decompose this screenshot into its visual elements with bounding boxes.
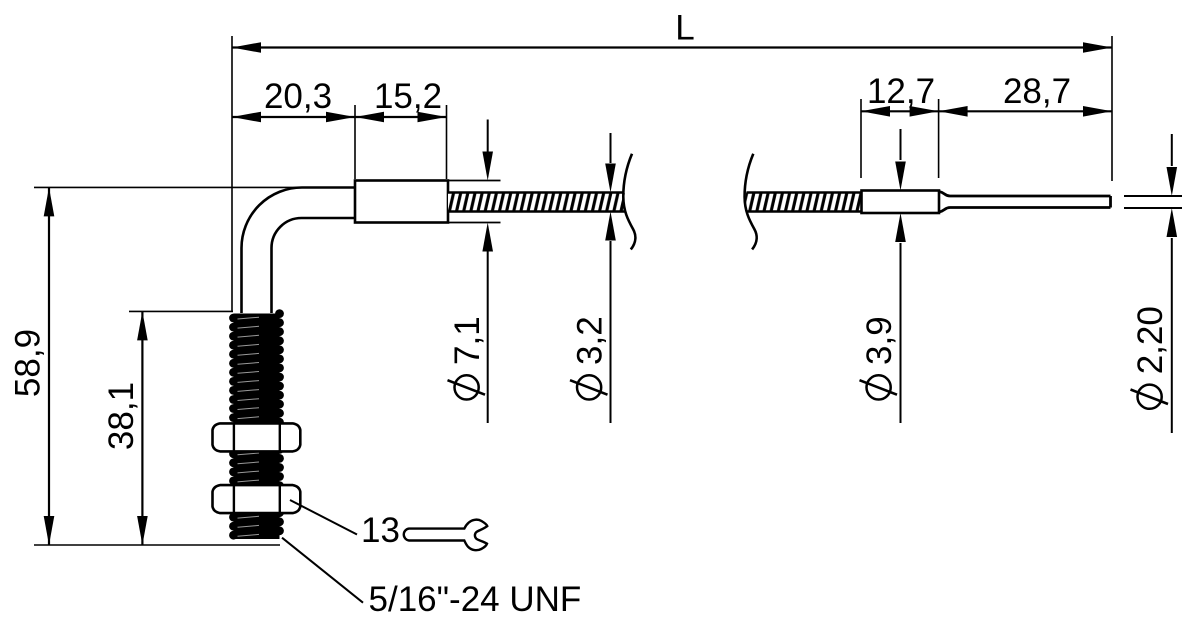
svg-text:58,9: 58,9 xyxy=(9,329,48,397)
dimension 12,7 xyxy=(861,99,939,178)
svg-text:15,2: 15,2 xyxy=(374,77,442,116)
svg-text:28,7: 28,7 xyxy=(1003,72,1071,111)
callout dia 3,9 xyxy=(900,129,902,423)
bent probe tube xyxy=(242,188,357,314)
thread helix lines xyxy=(238,317,260,536)
dimension 15,2 xyxy=(355,105,447,179)
svg-text:7,1: 7,1 xyxy=(448,316,487,365)
tip ticks 2.20 xyxy=(1124,196,1182,208)
svg-text:12,7: 12,7 xyxy=(867,72,935,111)
svg-text:13: 13 xyxy=(361,511,400,550)
dimension L xyxy=(232,36,1112,311)
transition sleeve 7.1 xyxy=(355,181,448,223)
sleeve ticks xyxy=(448,181,501,223)
svg-text:38,1: 38,1 xyxy=(102,382,141,450)
svg-text:3,2: 3,2 xyxy=(571,316,610,365)
leader 5/16-24 UNF xyxy=(282,538,363,603)
svg-text:20,3: 20,3 xyxy=(264,77,332,116)
dimension 28,7 xyxy=(939,110,1112,112)
wrench icon xyxy=(404,520,488,551)
svg-text:3,9: 3,9 xyxy=(860,316,899,365)
threaded stud xyxy=(229,309,284,539)
dimension 38,1 xyxy=(129,311,233,545)
leader 13 xyxy=(290,500,357,535)
svg-text:L: L xyxy=(675,9,694,48)
hex nut upper xyxy=(213,423,301,451)
break symbol left xyxy=(623,154,635,250)
svg-text:2,20: 2,20 xyxy=(1131,306,1170,374)
break symbol right xyxy=(745,154,757,250)
hex nut lower xyxy=(213,485,301,513)
svg-text:5/16"-24 UNF: 5/16"-24 UNF xyxy=(369,580,582,619)
callout dia 2,20 xyxy=(1171,134,1173,433)
dimension 58,9 xyxy=(34,187,302,545)
sleeve 3.9 xyxy=(862,191,940,214)
dimension 20,3 xyxy=(232,105,355,179)
probe tip 2.2 xyxy=(939,192,1111,213)
callout dia 7,1 xyxy=(487,120,489,424)
callout dia 3,2 xyxy=(610,133,612,423)
